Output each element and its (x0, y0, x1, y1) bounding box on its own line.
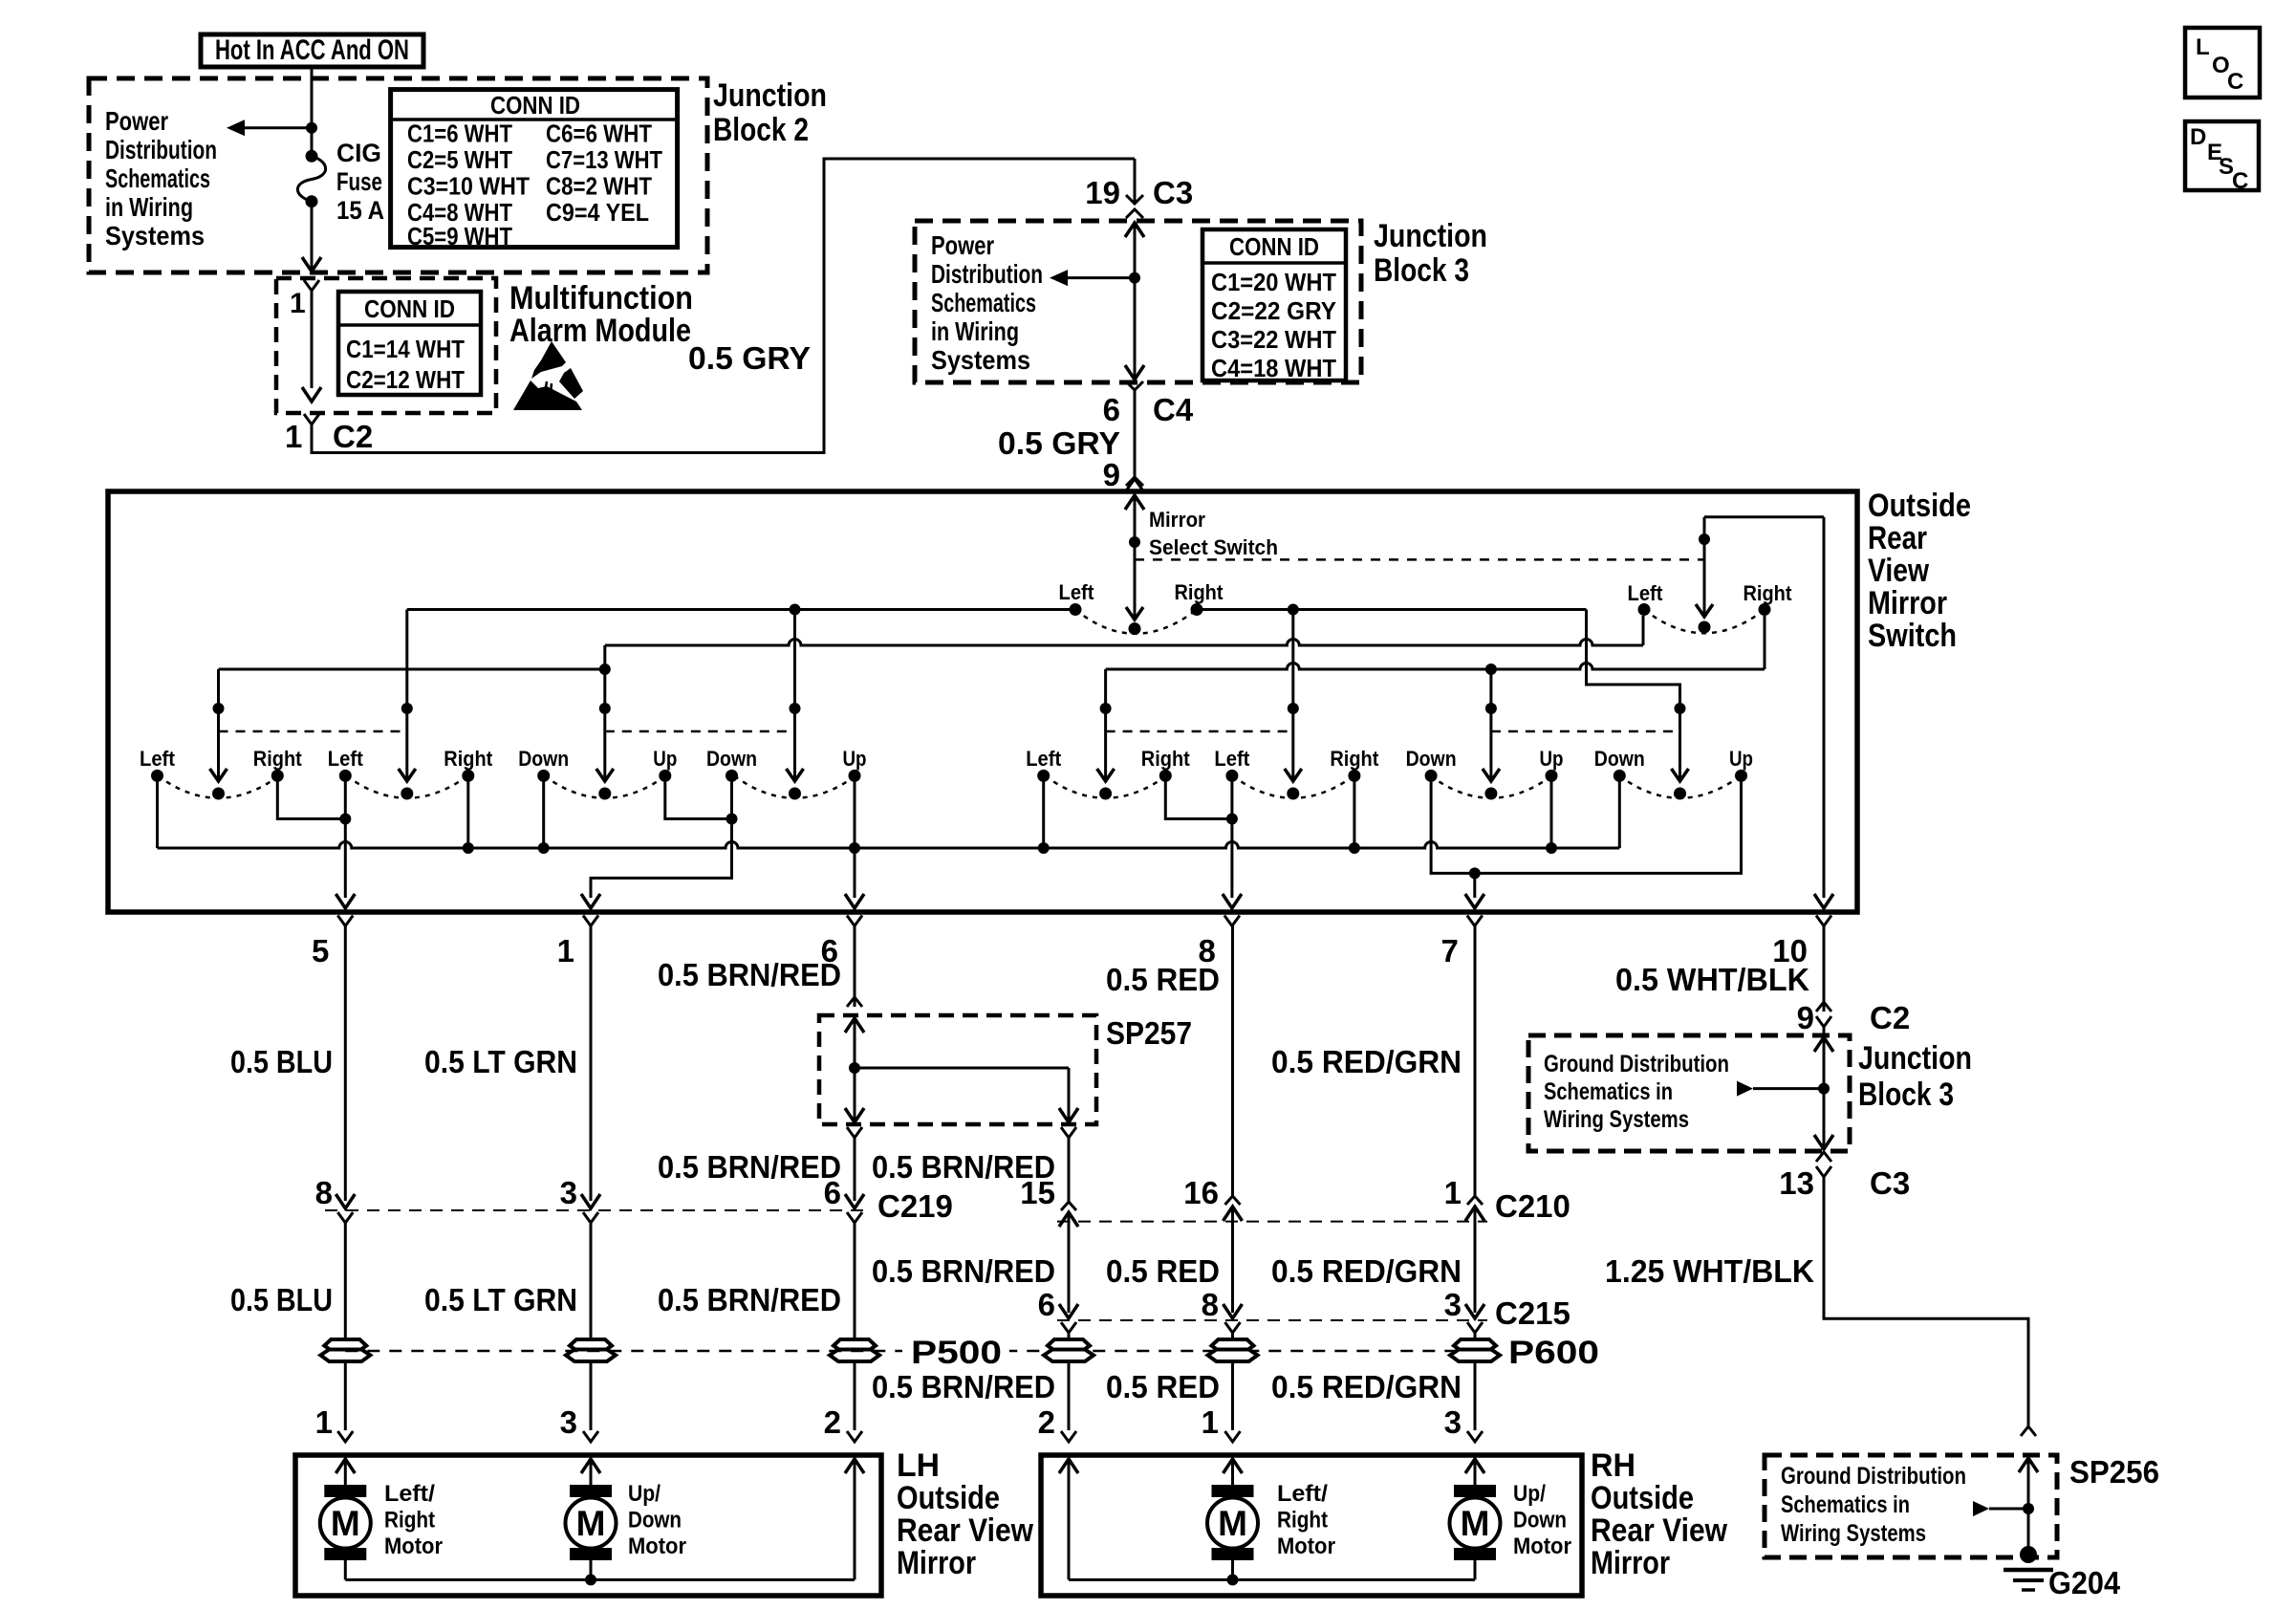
wire C219-6 to P500 (854, 1223, 856, 1340)
svg-text:D: D (2190, 124, 2206, 150)
wire pin 7 to C210 pin 1 (1474, 926, 1477, 1197)
svg-text:in Wiring: in Wiring (931, 316, 1019, 346)
svg-text:Left/: Left/ (1277, 1481, 1328, 1507)
common bus across switch (158, 842, 1620, 848)
svg-text:C8=2 WHT: C8=2 WHT (546, 172, 652, 201)
svg-text:Right: Right (1141, 747, 1191, 771)
svg-text:Left: Left (1628, 581, 1664, 605)
svg-text:1: 1 (1444, 1175, 1462, 1210)
junction block 3 dashed box (power) (915, 221, 1361, 382)
wire P500 to LH mirror pin 1 (344, 1362, 347, 1431)
node: junction at fuse feed (306, 122, 317, 134)
stub R1 to L2 (277, 775, 345, 818)
ESD sensitive symbol (531, 341, 566, 379)
svg-text:in Wiring: in Wiring (105, 192, 193, 222)
junction block 2 dashed box (89, 78, 707, 272)
wire through JB3 power box (1125, 223, 1144, 237)
svg-text:Left: Left (328, 747, 364, 771)
wire select pole2 to pin 10 riser (1704, 515, 1824, 518)
svg-text:Up: Up (1540, 747, 1564, 771)
svg-text:Outside: Outside (1591, 1480, 1694, 1516)
svg-text:CONN ID: CONN ID (1229, 232, 1319, 261)
svg-text:3: 3 (1444, 1404, 1462, 1440)
stub L1 to bus (156, 775, 159, 848)
svg-text:P600: P600 (1508, 1335, 1599, 1371)
svg-text:Distribution: Distribution (931, 259, 1043, 289)
svg-text:Schematics: Schematics (105, 163, 210, 193)
stub RH D2 to bus end (1618, 775, 1621, 848)
svg-text:Left: Left (1059, 580, 1095, 604)
svg-text:Left/: Left/ (384, 1481, 435, 1507)
svg-text:C4=18 WHT: C4=18 WHT (1211, 354, 1336, 382)
svg-text:Block 2: Block 2 (713, 112, 809, 148)
grommet P500 b (570, 1339, 612, 1351)
svg-text:Right: Right (1330, 747, 1379, 771)
riser to RH pivot 1 (1104, 669, 1107, 781)
svg-text:0.5 RED/GRN: 0.5 RED/GRN (1271, 1369, 1462, 1404)
svg-text:M: M (576, 1504, 606, 1543)
wire C215 pin 3 to P600 (1465, 1304, 1484, 1318)
svg-text:0.5 BRN/RED: 0.5 BRN/RED (658, 1149, 841, 1185)
svg-text:Outside: Outside (1868, 488, 1971, 524)
svg-text:0.5 BLU: 0.5 BLU (230, 1044, 333, 1079)
RH outside rear view mirror box (1041, 1455, 1582, 1596)
junction block 3 dashed box (ground) (1528, 1035, 1850, 1151)
svg-text:Left: Left (1026, 747, 1062, 771)
svg-text:Rear View: Rear View (897, 1512, 1033, 1549)
pin 1 / C2 exit (alarm module bottom) (304, 414, 319, 424)
svg-text:Up: Up (1729, 747, 1753, 771)
riser to LH pivot 4 (793, 610, 796, 782)
svg-text:Hot In ACC And ON: Hot In ACC And ON (215, 34, 409, 66)
wire P600 to RH mirror pin 2 (1068, 1362, 1071, 1431)
svg-text:Up: Up (653, 747, 677, 771)
svg-text:C7=13 WHT: C7=13 WHT (546, 145, 662, 174)
svg-text:C1=14 WHT: C1=14 WHT (346, 335, 465, 363)
stub R2 to bus (466, 775, 469, 848)
stub RH L1 to bus (1042, 775, 1045, 848)
riser to RH pivot 3 (1489, 669, 1492, 781)
svg-text:1: 1 (290, 288, 306, 319)
svg-text:Motor: Motor (1513, 1534, 1571, 1559)
riser to RH pivot 2 (1291, 610, 1294, 782)
svg-text:5: 5 (312, 933, 329, 968)
mirror select switch pole 1 (1070, 603, 1082, 616)
svg-text:M: M (331, 1504, 360, 1543)
svg-text:Down: Down (1406, 747, 1457, 771)
grommet P500 c (834, 1339, 876, 1351)
svg-text:Down: Down (628, 1508, 682, 1534)
wire line C (LH pivots 1,3 tie) (219, 668, 605, 671)
arrow to power distribution (JB3) (1050, 270, 1068, 286)
wire from Hot In ACC And ON down to fuse (311, 67, 314, 156)
svg-text:7: 7 (1440, 933, 1458, 968)
node: JB3 power junction (1129, 272, 1140, 284)
svg-text:CIG: CIG (336, 139, 381, 167)
svg-text:C3: C3 (1153, 175, 1193, 210)
svg-text:Power: Power (105, 106, 168, 136)
svg-text:Junction: Junction (1858, 1040, 1972, 1077)
svg-text:0.5 BRN/RED: 0.5 BRN/RED (872, 1369, 1055, 1404)
stub D1 to bus (542, 775, 545, 848)
wire C219-3 to P500 (590, 1223, 593, 1340)
grommet P600 c (1454, 1339, 1496, 1351)
svg-text:Ground Distribution: Ground Distribution (1544, 1051, 1729, 1077)
svg-text:Alarm Module: Alarm Module (509, 313, 691, 349)
mirror select switch common riser (1134, 495, 1137, 620)
svg-text:1: 1 (315, 1404, 333, 1440)
wire SP257 to C210 pin 15 (1061, 1127, 1076, 1138)
svg-text:C: C (2232, 168, 2248, 194)
svg-text:C210: C210 (1495, 1188, 1570, 1224)
svg-text:0.5 LT GRN: 0.5 LT GRN (424, 1282, 577, 1317)
wire from alarm C2 to junction block 3 C3 (312, 159, 1135, 453)
svg-text:15 A: 15 A (336, 196, 384, 225)
svg-text:Schematics: Schematics (931, 288, 1036, 317)
svg-text:C3: C3 (1870, 1165, 1910, 1201)
wire line A (select pole1 Left to LH pivots 2,4) (407, 608, 1075, 611)
svg-text:Block 3: Block 3 (1858, 1077, 1954, 1113)
wire pin 1 to C219 pin 3 (590, 926, 593, 1202)
svg-text:1: 1 (557, 933, 574, 968)
svg-text:3: 3 (1444, 1287, 1462, 1322)
switch bottom pin connectors 5 1 6 8 7 10 (337, 916, 353, 926)
svg-text:16: 16 (1183, 1175, 1219, 1210)
RH mirror internal wiring (1059, 1459, 1078, 1473)
connector C215 dashed line (1057, 1319, 1487, 1321)
grommet P600 a (1048, 1339, 1090, 1351)
wire through JB3 ground box (1814, 1037, 1833, 1052)
wire pin 6 to splice SP257 (854, 926, 856, 1008)
switch pivots and wiper arcs (212, 788, 225, 800)
svg-text:Outside: Outside (897, 1480, 1000, 1516)
svg-text:Left: Left (140, 747, 176, 771)
svg-text:C: C (2227, 69, 2243, 95)
svg-text:Junction: Junction (713, 77, 827, 114)
riser to LH pivot 2 (405, 610, 408, 782)
svg-text:Ground Distribution: Ground Distribution (1781, 1463, 1966, 1490)
svg-text:Right: Right (384, 1508, 435, 1534)
svg-text:1: 1 (285, 419, 302, 454)
pin 9 label/connector at switch top (1127, 479, 1142, 490)
svg-text:P500: P500 (911, 1335, 1002, 1371)
svg-text:C215: C215 (1495, 1295, 1570, 1331)
connector C3 pin 13 (1816, 1152, 1831, 1162)
svg-text:Rear: Rear (1868, 520, 1927, 556)
svg-text:Schematics in: Schematics in (1544, 1078, 1673, 1105)
svg-text:0.5 BRN/RED: 0.5 BRN/RED (658, 957, 841, 992)
stub RH R1 to RH L2 (1165, 775, 1232, 818)
svg-text:0.5 RED/GRN: 0.5 RED/GRN (1271, 1044, 1462, 1079)
svg-text:0.5 WHT/BLK: 0.5 WHT/BLK (1615, 962, 1809, 997)
svg-text:CONN ID: CONN ID (364, 294, 455, 323)
svg-text:CONN ID: CONN ID (490, 91, 580, 120)
wire SP257 to C219 pin 6 (847, 1127, 862, 1138)
svg-text:C4: C4 (1153, 392, 1194, 427)
wire RH L2 down to pin 8 (1230, 775, 1233, 898)
svg-text:1.25 WHT/BLK: 1.25 WHT/BLK (1605, 1253, 1814, 1289)
grommet P500 a (324, 1339, 366, 1351)
CONN ID table (alarm module) (338, 292, 481, 395)
wire U2 down to pin 6 (854, 775, 856, 898)
DESC reference box (2185, 121, 2259, 190)
wire pin 5 to C219 pin 8 (344, 926, 347, 1202)
arrow to ground distribution (JB3) (1737, 1081, 1753, 1097)
wire P600 to RH mirror pin 3 (1474, 1362, 1477, 1431)
svg-text:View: View (1868, 553, 1929, 589)
riser to LH pivot 1 (217, 669, 220, 781)
svg-text:Fuse: Fuse (336, 167, 382, 196)
svg-text:0.5 RED: 0.5 RED (1106, 1369, 1220, 1404)
svg-text:9: 9 (1103, 457, 1120, 492)
svg-text:Select Switch: Select Switch (1149, 535, 1278, 559)
splice SP257 dashed box (819, 1015, 1096, 1124)
svg-text:Up/: Up/ (628, 1481, 661, 1507)
wire line B (LH pivot3 to select pole2 Left) (605, 640, 1643, 645)
svg-text:13: 13 (1779, 1165, 1814, 1201)
svg-text:M: M (1461, 1504, 1490, 1543)
grommet P600 b (1212, 1339, 1254, 1351)
multifunction alarm module dashed box (276, 278, 496, 413)
svg-text:0.5 BRN/RED: 0.5 BRN/RED (872, 1149, 1055, 1185)
svg-text:C9=4 YEL: C9=4 YEL (546, 198, 649, 227)
svg-text:C3=22 WHT: C3=22 WHT (1211, 325, 1336, 354)
svg-text:Right: Right (1744, 581, 1793, 605)
P500 P600 splice dashed line (345, 1350, 1475, 1353)
splice SP256 dashed box (1765, 1455, 2057, 1557)
svg-text:Systems: Systems (105, 221, 205, 250)
svg-text:0.5 RED/GRN: 0.5 RED/GRN (1271, 1253, 1462, 1289)
LH outside rear view mirror box (295, 1455, 881, 1596)
wire pin 8 to C210 pin 16 (1231, 926, 1234, 1197)
svg-text:Rear View: Rear View (1591, 1512, 1727, 1549)
svg-text:Motor: Motor (1277, 1534, 1335, 1559)
wire line C right (select pole2 Right to RH pivots 1,3) (1106, 664, 1765, 669)
svg-text:C2=12 WHT: C2=12 WHT (346, 365, 465, 394)
svg-text:Mirror: Mirror (1149, 508, 1205, 532)
wire P500 to LH mirror pin 3 (590, 1362, 593, 1431)
svg-text:C2: C2 (1870, 1000, 1910, 1035)
svg-text:Down: Down (1594, 747, 1645, 771)
svg-text:Systems: Systems (931, 345, 1030, 375)
svg-text:Power: Power (931, 230, 994, 260)
fuse F1 CIG Fuse 15A (306, 150, 318, 163)
svg-text:Junction: Junction (1374, 218, 1487, 254)
label P500 (902, 1337, 1009, 1365)
stub U1 to D2 (665, 775, 732, 818)
svg-text:Up: Up (843, 747, 867, 771)
svg-text:Switch: Switch (1868, 618, 1957, 654)
splice SP256 wiring (2019, 1458, 2038, 1472)
svg-text:0.5 GRY: 0.5 GRY (998, 425, 1120, 461)
jog feed to RH pivot 4 (1587, 610, 1680, 687)
outside rear view mirror switch box (108, 491, 1857, 912)
svg-text:0.5 BLU: 0.5 BLU (230, 1282, 333, 1317)
svg-text:Schematics in: Schematics in (1781, 1491, 1910, 1518)
wire pin 10 to C2 pin 9 (1823, 926, 1826, 1012)
svg-text:0.5 BRN/RED: 0.5 BRN/RED (658, 1282, 841, 1317)
pin 1 entry (alarm module top) (304, 280, 319, 291)
svg-text:3: 3 (560, 1404, 577, 1440)
svg-text:3: 3 (560, 1175, 577, 1210)
wire RH D1 jog to RH U2 and pin 7 (1431, 775, 1741, 873)
wire C215 pin 6 to P600 (1059, 1304, 1078, 1318)
svg-text:Motor: Motor (628, 1534, 686, 1559)
svg-text:C2: C2 (333, 419, 373, 454)
node: JB3 ground junction (1818, 1083, 1830, 1095)
svg-text:Down: Down (706, 747, 757, 771)
svg-text:M: M (1218, 1504, 1247, 1543)
svg-text:Block 3: Block 3 (1374, 252, 1469, 289)
stub RH R2 to bus (1353, 775, 1355, 848)
stub RH U1 to bus (1550, 775, 1553, 848)
wire C3-13 to splice SP256 (1824, 1177, 2028, 1426)
svg-text:Mirror: Mirror (1591, 1545, 1670, 1581)
svg-text:Wiring Systems: Wiring Systems (1544, 1106, 1689, 1133)
svg-text:Right: Right (444, 747, 493, 771)
svg-text:Down: Down (518, 747, 569, 771)
svg-text:0.5 RED: 0.5 RED (1106, 1253, 1220, 1289)
svg-text:Right: Right (253, 747, 303, 771)
wire L2 down to pin 5 (344, 775, 347, 898)
svg-text:Down: Down (1513, 1508, 1567, 1534)
arrow to power distribution (JB2) (227, 120, 245, 136)
svg-text:0.5 LT GRN: 0.5 LT GRN (424, 1044, 577, 1079)
svg-text:2: 2 (1038, 1404, 1055, 1440)
svg-text:19: 19 (1085, 175, 1120, 210)
LH left/right motor M1 (324, 1485, 366, 1497)
svg-text:0.5 BRN/RED: 0.5 BRN/RED (872, 1253, 1055, 1289)
svg-text:Wiring Systems: Wiring Systems (1781, 1520, 1926, 1547)
connector C210 dashed line (1057, 1221, 1487, 1223)
svg-text:2: 2 (824, 1404, 841, 1440)
svg-text:Right: Right (1175, 580, 1224, 604)
connector C3 pin 19 (1134, 159, 1137, 204)
CONN ID table (JB2) (391, 90, 678, 248)
label box: Hot In ACC And ON (201, 34, 423, 67)
svg-text:8: 8 (1202, 1287, 1219, 1322)
LH mirror internal wiring (336, 1459, 355, 1473)
pin 9 entry into switch (1125, 495, 1144, 510)
svg-text:SP257: SP257 (1106, 1015, 1192, 1051)
svg-text:SP256: SP256 (2069, 1454, 2159, 1490)
svg-text:C219: C219 (877, 1188, 953, 1224)
svg-text:C2=5 WHT: C2=5 WHT (407, 145, 512, 174)
svg-text:6: 6 (1103, 392, 1120, 427)
wire P500 to LH mirror pin 2 (854, 1362, 856, 1431)
svg-text:G204: G204 (2048, 1565, 2121, 1600)
svg-text:Right: Right (1277, 1508, 1328, 1534)
svg-text:1: 1 (1202, 1404, 1219, 1440)
RH left/right motor M3 (1212, 1485, 1254, 1497)
ground G204 (2020, 1546, 2037, 1563)
riser to LH pivot 3 (603, 645, 606, 781)
svg-text:L: L (2196, 34, 2210, 60)
wire from fuse to JB2 bottom (311, 202, 314, 269)
svg-text:Distribution: Distribution (105, 135, 217, 164)
svg-text:C1=20 WHT: C1=20 WHT (1211, 268, 1336, 296)
connector C4 pin 6 to pin 9 (1126, 381, 1143, 390)
LH up/down motor M2 (570, 1485, 612, 1497)
svg-text:Mirror: Mirror (897, 1545, 976, 1581)
svg-text:Multifunction: Multifunction (509, 280, 693, 316)
svg-text:C3=10 WHT: C3=10 WHT (407, 172, 530, 201)
svg-text:6: 6 (1038, 1287, 1055, 1322)
svg-text:RH: RH (1591, 1447, 1635, 1484)
switch contacts and labels (151, 770, 163, 782)
RH up/down motor M4 (1454, 1485, 1496, 1497)
wire C215 pin 8 to P600 (1224, 1304, 1243, 1318)
svg-text:C2=22 GRY: C2=22 GRY (1211, 296, 1336, 325)
connector C219 dashed line (325, 1209, 868, 1211)
LOC reference box (2185, 28, 2260, 98)
wire inside alarm module (311, 291, 314, 388)
svg-text:0.5 GRY: 0.5 GRY (688, 340, 811, 376)
svg-text:LH: LH (897, 1447, 940, 1484)
wire line A right (select pole1 Right to RH pivots 2,4) (1197, 608, 1587, 611)
splice SP257 wiring (845, 1018, 864, 1033)
svg-text:Left: Left (1214, 747, 1250, 771)
select switch gang dashed link (1135, 558, 1704, 561)
wire P600 to RH mirror pin 1 (1231, 1362, 1234, 1431)
svg-text:9: 9 (1797, 1000, 1814, 1035)
svg-text:Motor: Motor (384, 1534, 443, 1559)
svg-text:C5=9 WHT: C5=9 WHT (407, 222, 512, 250)
riser to RH pivot 4 (1679, 685, 1681, 781)
svg-text:8: 8 (315, 1175, 333, 1210)
wire C219-8 to P500 (344, 1223, 347, 1340)
svg-text:C6=6 WHT: C6=6 WHT (546, 120, 652, 148)
mirror select switch pole 2 (1699, 533, 1710, 545)
wire D2 down and jog to pin 1 (726, 814, 738, 825)
gang dashed links between switch poles (219, 730, 407, 733)
svg-text:Up/: Up/ (1513, 1481, 1546, 1507)
svg-text:0.5 RED: 0.5 RED (1106, 962, 1220, 997)
CONN ID table (JB3) (1202, 229, 1346, 381)
svg-text:C1=6 WHT: C1=6 WHT (407, 120, 512, 148)
svg-text:Mirror: Mirror (1868, 585, 1947, 621)
